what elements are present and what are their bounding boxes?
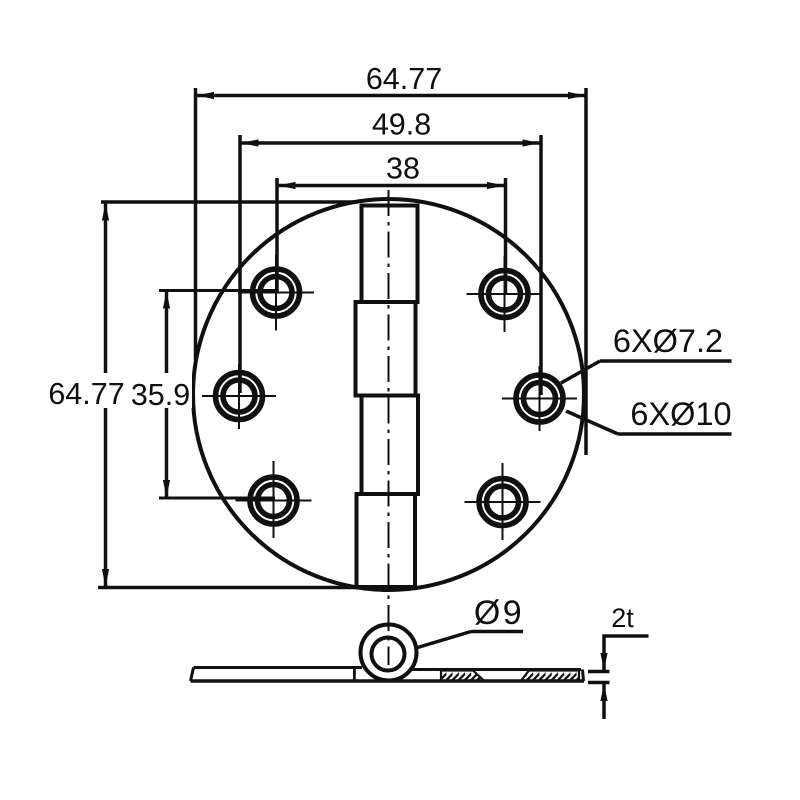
dim 38 arrows (278, 182, 505, 189)
side view right end cap (583, 670, 584, 682)
side view top edge left (194, 666, 363, 669)
text mask 35.9 (128, 373, 192, 408)
hole ML cross (202, 364, 276, 429)
hinge body circle (193, 199, 584, 590)
dim 49.8 left extension (238, 135, 242, 393)
label 6X010 shelf (618, 432, 732, 436)
dim 64.77 vertical arrows (102, 203, 109, 587)
svg-text:Ø9: Ø9 (474, 594, 524, 632)
text mask left 64.77 (46, 373, 126, 408)
side knuckle outer circle (361, 625, 417, 681)
dim 38 line (277, 184, 506, 188)
dim 38 right extension (504, 178, 508, 294)
hole ML outer (216, 373, 263, 420)
dim 35.9 bottom extension (159, 497, 275, 500)
svg-text:35.9: 35.9 (131, 378, 190, 412)
label 6X010 leader (566, 411, 618, 434)
knuckle segment 2 (356, 302, 416, 396)
dim 2t shelf (604, 636, 649, 670)
dim 49.8 arrows (241, 139, 540, 146)
hatch block 1 (441, 671, 484, 681)
dim 35.9 line (165, 291, 169, 499)
dim 49.8 right extension (539, 135, 543, 395)
side view bottom edge (191, 679, 585, 683)
hole TR inner (489, 278, 521, 310)
hole TR outer (481, 271, 528, 318)
dim 64.77 top line (196, 94, 587, 98)
hole TL cross (238, 255, 314, 331)
knuckle segment 1 (362, 206, 418, 303)
dim 35.9 arrows (163, 291, 170, 498)
dim 38 left extension (275, 178, 279, 293)
dim 2t lower line (602, 683, 606, 719)
label 6X07.2 leader (561, 361, 600, 383)
hole BL cross (236, 461, 312, 538)
hole BR inner (487, 486, 519, 518)
hole MR outer (516, 375, 563, 422)
svg-text:2t: 2t (611, 603, 634, 633)
side view top edge right (412, 668, 581, 671)
svg-text:6XØ7.2: 6XØ7.2 (613, 323, 723, 359)
hole TR cross (467, 256, 543, 332)
hole MR inner (524, 383, 556, 415)
dim 64.77 vertical line (104, 202, 108, 587)
knuckle segment 4 (357, 494, 416, 587)
dim 2t arrows (600, 653, 607, 701)
dim 2t top extension bar (588, 670, 610, 674)
hole BL inner (258, 485, 290, 517)
label 6X07.2 shelf (600, 359, 732, 363)
label O9 leader (416, 632, 471, 649)
label O9 shelf (471, 630, 523, 634)
side knuckle inner circle (372, 638, 405, 671)
knuckle segment 3 (362, 396, 419, 495)
hole BR cross (465, 463, 541, 540)
dim 64.77 top left extension (194, 88, 198, 360)
hole BL outer (250, 477, 297, 524)
vertical centerline (388, 190, 390, 665)
svg-text:64.77: 64.77 (366, 62, 442, 96)
svg-text:64.77: 64.77 (48, 377, 124, 411)
dim 64.77 vertical top extension (101, 200, 358, 204)
hole ML inner (223, 380, 255, 412)
dim 2t bottom extension bar (588, 681, 610, 685)
dim 64.77 vertical bottom extension (98, 586, 416, 590)
hole MR cross (502, 366, 577, 431)
dim 35.9 top extension (159, 289, 277, 292)
dim 64.77 top arrows (197, 92, 586, 99)
dim 64.77 top right extension (584, 88, 588, 455)
hole BR outer (479, 479, 526, 526)
svg-text:38: 38 (386, 152, 420, 186)
hole TL outer (253, 269, 300, 316)
dim 49.8 line (240, 141, 541, 145)
side view left end cap (191, 668, 194, 682)
side view right leaf end (353, 668, 356, 681)
hatch block 2 (521, 671, 579, 681)
svg-text:6XØ10: 6XØ10 (630, 396, 731, 432)
svg-text:49.8: 49.8 (372, 108, 431, 142)
hole TL inner (260, 277, 292, 309)
